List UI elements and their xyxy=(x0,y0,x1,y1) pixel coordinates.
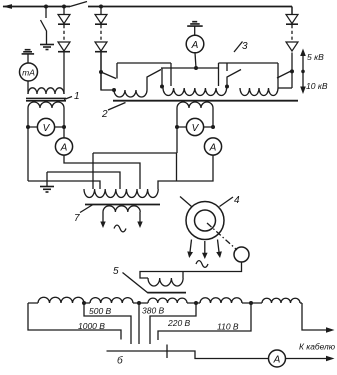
svg-text:7: 7 xyxy=(74,213,80,224)
svg-text:A: A xyxy=(191,40,199,51)
svg-text:mA: mA xyxy=(22,68,35,78)
svg-text:4: 4 xyxy=(234,195,240,206)
svg-text:A: A xyxy=(60,143,68,154)
svg-text:10 кВ: 10 кВ xyxy=(306,81,328,91)
svg-text:V: V xyxy=(192,123,200,134)
svg-text:A: A xyxy=(273,355,281,366)
svg-text:A: A xyxy=(209,143,217,154)
svg-text:1000 В: 1000 В xyxy=(78,321,105,331)
svg-text:V: V xyxy=(43,123,51,134)
svg-text:500 В: 500 В xyxy=(89,306,112,316)
svg-text:К кабелю: К кабелю xyxy=(299,343,335,352)
svg-text:б: б xyxy=(117,355,123,367)
svg-text:1: 1 xyxy=(74,91,80,102)
svg-text:380 В: 380 В xyxy=(142,306,165,316)
svg-text:5 кВ: 5 кВ xyxy=(307,52,324,62)
svg-text:220 В: 220 В xyxy=(167,318,191,328)
svg-text:110 В: 110 В xyxy=(217,322,239,332)
svg-text:5: 5 xyxy=(113,266,119,277)
svg-text:2: 2 xyxy=(101,109,108,120)
svg-text:3: 3 xyxy=(242,41,248,52)
